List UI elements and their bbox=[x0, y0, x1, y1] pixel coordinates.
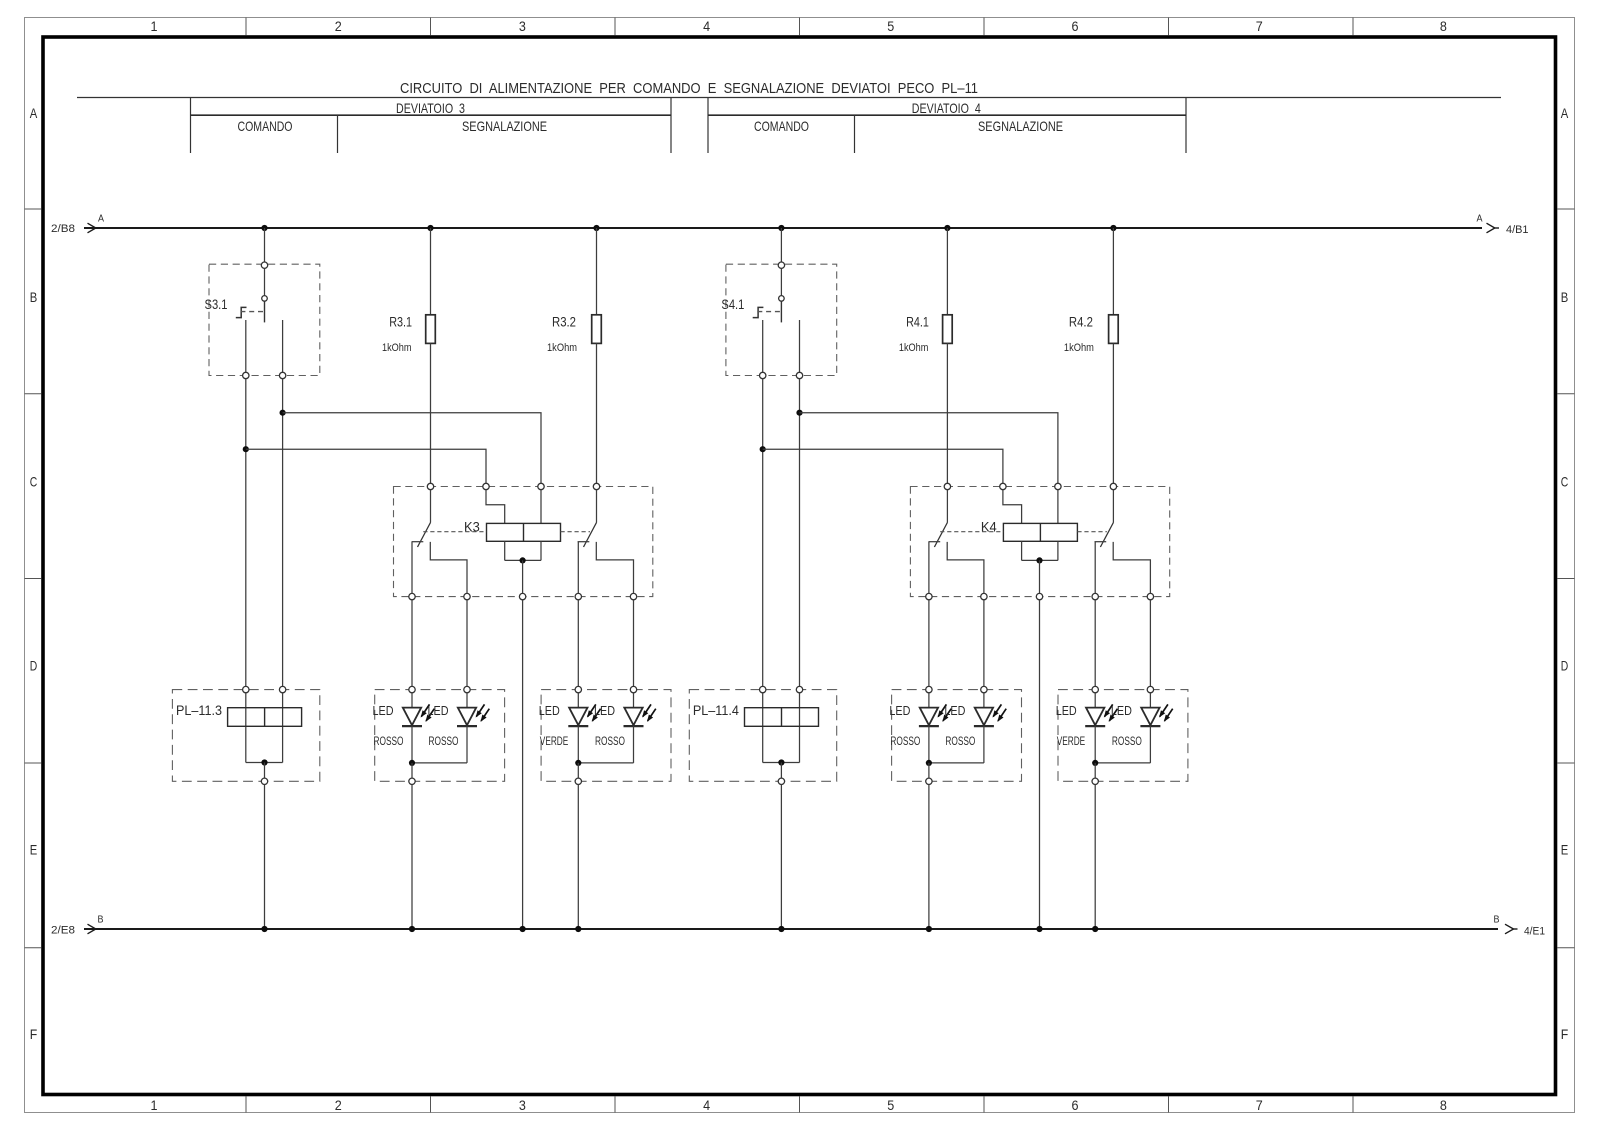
svg-text:LED: LED bbox=[1056, 703, 1077, 718]
svg-text:5: 5 bbox=[887, 18, 894, 34]
wire: K4 contact to LED group 1 bbox=[928, 600, 930, 687]
wire: K4 contact to LED group 1 bbox=[983, 600, 985, 687]
wire: pole1 to K4 coil terminal bbox=[763, 449, 1003, 483]
svg-text:A: A bbox=[98, 214, 104, 225]
value 1kOhm (R3.1) bbox=[382, 342, 412, 354]
header group DEVIATOIO 3 bbox=[191, 98, 672, 154]
LED VERDE bbox=[1085, 686, 1117, 763]
wire: K4 contact to LED group 2 bbox=[1149, 600, 1151, 687]
svg-text:DEVIATOIO 3: DEVIATOIO 3 bbox=[396, 100, 465, 116]
svg-text:CIRCUITO DI ALIMENTAZIONE P: CIRCUITO DI ALIMENTAZIONE PER COMANDO E … bbox=[400, 80, 978, 97]
svg-text:F: F bbox=[1561, 1026, 1569, 1042]
svg-text:LED: LED bbox=[539, 703, 560, 718]
svg-text:4: 4 bbox=[703, 1097, 710, 1113]
value 1kOhm (R4.1) bbox=[899, 342, 929, 354]
label ROSSO bbox=[374, 734, 404, 748]
label ROSSO bbox=[595, 734, 625, 748]
svg-text:2/E8: 2/E8 bbox=[51, 925, 75, 937]
resistor R3.1 bbox=[426, 315, 436, 344]
LED ROSSO bbox=[974, 686, 1006, 763]
LED indicator group (K3 segnalazione) bbox=[541, 690, 671, 782]
LED indicator group (K4 comando) bbox=[892, 690, 1022, 782]
junction: bus A / S4.1 bbox=[778, 225, 784, 231]
net label 4/B1 bbox=[1506, 224, 1529, 236]
wire: S4.1 pole2 down to PL coil bbox=[799, 379, 801, 687]
svg-text:LED: LED bbox=[373, 703, 394, 718]
label LED bbox=[539, 703, 560, 718]
junction: LED group (K3 segnalazione) bbox=[575, 760, 581, 766]
svg-text:1: 1 bbox=[151, 18, 158, 34]
svg-text:R4.2: R4.2 bbox=[1069, 314, 1093, 330]
label LED bbox=[1056, 703, 1077, 718]
svg-text:4: 4 bbox=[703, 18, 710, 34]
svg-text:R4.1: R4.1 bbox=[906, 314, 929, 330]
wire: R4.2 to K4 contact bbox=[1112, 343, 1114, 483]
svg-text:F: F bbox=[30, 1026, 38, 1042]
junction: K4 return / bus B bbox=[1036, 926, 1042, 932]
point machine coil PL-11.3 bbox=[172, 686, 319, 784]
LED indicator group (K4 segnalazione) bbox=[1058, 690, 1188, 782]
junction: LED return / bus B (K3 comando) bbox=[409, 926, 415, 932]
wire: bus B (2/E8 to 4/E1) bbox=[84, 924, 1518, 934]
svg-text:K3: K3 bbox=[464, 519, 480, 535]
terminal: LED group return (K3 comando) bbox=[409, 763, 415, 785]
wire: pole2 to K3 coil terminal bbox=[283, 413, 541, 484]
svg-text:2/B8: 2/B8 bbox=[51, 223, 75, 235]
node B right bbox=[1494, 915, 1500, 926]
svg-text:ROSSO: ROSSO bbox=[374, 734, 404, 748]
svg-text:2: 2 bbox=[335, 18, 342, 34]
svg-text:ROSSO: ROSSO bbox=[945, 734, 975, 748]
svg-text:PL–11.3: PL–11.3 bbox=[176, 702, 222, 718]
svg-text:E: E bbox=[30, 842, 38, 858]
junction: pole2 / relay wire bbox=[796, 410, 802, 416]
terminal: LED group return (K4 segnalazione) bbox=[1092, 763, 1098, 785]
value 1kOhm (R4.2) bbox=[1064, 342, 1094, 354]
junction: bus A / R4.2 bbox=[1110, 225, 1116, 231]
wire: PL-11.3 return to bus B bbox=[264, 785, 266, 930]
svg-text:K4: K4 bbox=[981, 519, 997, 535]
svg-text:1kOhm: 1kOhm bbox=[547, 342, 577, 354]
wire: R3.2 to K3 contact bbox=[596, 343, 598, 483]
wire: bus A (2/B8 to 4/B1) bbox=[84, 223, 1499, 233]
junction: LED group (K3 comando) bbox=[409, 760, 415, 766]
wire: K3 coil return to bus B bbox=[522, 600, 524, 929]
title: CIRCUITO DI ALIMENTAZIONE PER COMANDO E SEGNALAZIONE DEVIATOI PECO PL-11 bbox=[400, 80, 978, 97]
wire: K4 coil return to bus B bbox=[1039, 600, 1041, 929]
LED ROSSO bbox=[919, 686, 951, 763]
svg-text:S4.1: S4.1 bbox=[721, 296, 744, 312]
label ROSSO bbox=[945, 734, 975, 748]
svg-text:B: B bbox=[30, 289, 38, 305]
label K3 bbox=[464, 519, 480, 535]
net label 4/E1 bbox=[1524, 926, 1545, 938]
svg-text:ROSSO: ROSSO bbox=[595, 734, 625, 748]
switch S4.1 (DPDT command switch) bbox=[726, 262, 837, 379]
resistor R3.2 bbox=[592, 315, 602, 344]
svg-text:4/B1: 4/B1 bbox=[1506, 224, 1529, 236]
label LED bbox=[944, 703, 965, 718]
svg-text:B: B bbox=[98, 915, 104, 926]
svg-text:8: 8 bbox=[1440, 1097, 1447, 1113]
wire: R3.1 to K3 contact bbox=[430, 343, 432, 483]
point machine coil PL-11.4 bbox=[689, 686, 836, 784]
svg-text:B: B bbox=[1561, 289, 1569, 305]
wire: bus A to R4.1 bbox=[946, 228, 948, 315]
resistor R4.1 bbox=[943, 315, 953, 344]
wire: LED cathodes join (K3 comando) bbox=[412, 762, 467, 764]
svg-text:2: 2 bbox=[335, 1097, 342, 1113]
label PL-11.3 bbox=[176, 702, 222, 718]
junction: LED return / bus B (K4 segnalazione) bbox=[1092, 926, 1098, 932]
wire: LED group return to bus B (K4 segnalazione) bbox=[1094, 785, 1096, 930]
header group DEVIATOIO 4 bbox=[708, 98, 1186, 154]
svg-text:6: 6 bbox=[1072, 1097, 1079, 1113]
label S3.1 bbox=[205, 296, 228, 312]
svg-text:B: B bbox=[1494, 915, 1500, 926]
label R3.1 bbox=[389, 314, 412, 330]
node A left bbox=[98, 214, 104, 225]
svg-text:R3.2: R3.2 bbox=[552, 314, 576, 330]
label R4.1 bbox=[906, 314, 929, 330]
svg-text:ROSSO: ROSSO bbox=[890, 734, 920, 748]
label LED bbox=[428, 703, 449, 718]
junction: pole2 / relay wire bbox=[280, 410, 286, 416]
label VERDE bbox=[540, 734, 569, 748]
node A right bbox=[1477, 214, 1483, 225]
svg-text:C: C bbox=[1561, 473, 1569, 489]
resistor R4.2 bbox=[1109, 315, 1119, 344]
svg-text:A: A bbox=[30, 105, 38, 121]
label S4.1 bbox=[721, 296, 744, 312]
svg-text:S3.1: S3.1 bbox=[205, 296, 228, 312]
wire: LED group return to bus B (K3 comando) bbox=[411, 785, 413, 930]
svg-text:SEGNALAZIONE: SEGNALAZIONE bbox=[978, 118, 1063, 134]
svg-text:VERDE: VERDE bbox=[540, 734, 569, 748]
junction: bus A / R3.1 bbox=[427, 225, 433, 231]
svg-text:7: 7 bbox=[1256, 1097, 1263, 1113]
svg-text:VERDE: VERDE bbox=[1057, 734, 1086, 748]
label VERDE bbox=[1057, 734, 1086, 748]
wire: R4.1 to K4 contact bbox=[946, 343, 948, 483]
wire: LED group return to bus B (K3 segnalazione) bbox=[577, 785, 579, 930]
svg-text:D: D bbox=[1561, 658, 1569, 674]
wire: bus A to R3.1 bbox=[430, 228, 432, 315]
wire: K3 contact to LED group 2 bbox=[633, 600, 635, 687]
svg-text:LED: LED bbox=[1111, 703, 1132, 718]
label ROSSO bbox=[429, 734, 459, 748]
wire: pole1 to K3 coil terminal bbox=[246, 449, 486, 483]
svg-text:LED: LED bbox=[944, 703, 965, 718]
svg-text:LED: LED bbox=[594, 703, 615, 718]
label R4.2 bbox=[1069, 314, 1093, 330]
svg-text:1kOhm: 1kOhm bbox=[899, 342, 929, 354]
svg-text:PL–11.4: PL–11.4 bbox=[693, 702, 739, 718]
svg-text:1kOhm: 1kOhm bbox=[382, 342, 412, 354]
svg-text:A: A bbox=[1561, 105, 1569, 121]
LED ROSSO bbox=[457, 686, 489, 763]
wire: S4.1 pole1 down to PL coil bbox=[762, 379, 764, 687]
svg-text:8: 8 bbox=[1440, 18, 1447, 34]
net label 2/B8 bbox=[51, 223, 75, 235]
wire: bus A to R4.2 bbox=[1112, 228, 1114, 315]
junction: bus A / R3.2 bbox=[593, 225, 599, 231]
junction: bus A / S3.1 bbox=[261, 225, 267, 231]
junction: LED group (K4 segnalazione) bbox=[1092, 760, 1098, 766]
junction: pole1 / relay wire bbox=[760, 446, 766, 452]
label PL-11.4 bbox=[693, 702, 739, 718]
junction: bus A / R4.1 bbox=[944, 225, 950, 231]
wire: PL-11.4 return to bus B bbox=[780, 785, 782, 930]
svg-text:3: 3 bbox=[519, 1097, 526, 1113]
svg-text:ROSSO: ROSSO bbox=[429, 734, 459, 748]
relay K4 (coil and changeover contacts) bbox=[910, 483, 1169, 600]
wire: K3 contact to LED group 1 bbox=[411, 600, 413, 687]
node B left bbox=[98, 915, 104, 926]
svg-text:E: E bbox=[1561, 842, 1569, 858]
switch S3.1 (DPDT command switch) bbox=[209, 262, 320, 379]
wire: S3.1 pole1 down to PL coil bbox=[245, 379, 247, 687]
svg-text:A: A bbox=[1477, 214, 1483, 225]
value 1kOhm (R3.2) bbox=[547, 342, 577, 354]
label LED bbox=[889, 703, 910, 718]
wire: pole2 to K4 coil terminal bbox=[800, 413, 1058, 484]
svg-text:7: 7 bbox=[1256, 18, 1263, 34]
svg-text:DEVIATOIO 4: DEVIATOIO 4 bbox=[912, 100, 981, 116]
wire: LED cathodes join (K4 comando) bbox=[929, 762, 984, 764]
LED ROSSO bbox=[1140, 686, 1172, 763]
wire: LED cathodes join (K3 segnalazione) bbox=[578, 762, 633, 764]
svg-text:4/E1: 4/E1 bbox=[1524, 926, 1545, 938]
svg-text:LED: LED bbox=[428, 703, 449, 718]
wire: LED cathodes join (K4 segnalazione) bbox=[1095, 762, 1150, 764]
svg-text:1kOhm: 1kOhm bbox=[1064, 342, 1094, 354]
relay K3 (coil and changeover contacts) bbox=[394, 483, 653, 600]
svg-text:ROSSO: ROSSO bbox=[1112, 734, 1142, 748]
label R3.2 bbox=[552, 314, 576, 330]
svg-text:COMANDO: COMANDO bbox=[238, 118, 293, 134]
terminal: LED group return (K3 segnalazione) bbox=[575, 763, 581, 785]
label K4 bbox=[981, 519, 997, 535]
svg-text:C: C bbox=[30, 473, 38, 489]
svg-text:6: 6 bbox=[1072, 18, 1079, 34]
junction: LED return / bus B (K3 segnalazione) bbox=[575, 926, 581, 932]
wire: K3 contact to LED group 1 bbox=[466, 600, 468, 687]
junction: PL-11.3 / bus B bbox=[261, 926, 267, 932]
label ROSSO bbox=[1112, 734, 1142, 748]
svg-text:D: D bbox=[30, 658, 38, 674]
svg-text:SEGNALAZIONE: SEGNALAZIONE bbox=[462, 118, 547, 134]
svg-text:LED: LED bbox=[889, 703, 910, 718]
svg-text:R3.1: R3.1 bbox=[389, 314, 412, 330]
junction: K3 return / bus B bbox=[520, 926, 526, 932]
svg-text:3: 3 bbox=[519, 18, 526, 34]
wire: K3 contact to LED group 2 bbox=[577, 600, 579, 687]
junction: LED return / bus B (K4 comando) bbox=[926, 926, 932, 932]
LED indicator group (K3 comando) bbox=[375, 690, 505, 782]
terminal: LED group return (K4 comando) bbox=[926, 763, 932, 785]
wire: K4 contact to LED group 2 bbox=[1094, 600, 1096, 687]
label LED bbox=[373, 703, 394, 718]
wire: S3.1 pole2 down to PL coil bbox=[282, 379, 284, 687]
svg-text:COMANDO: COMANDO bbox=[754, 118, 809, 134]
wire: LED group return to bus B (K4 comando) bbox=[928, 785, 930, 930]
junction: LED group (K4 comando) bbox=[926, 760, 932, 766]
LED ROSSO bbox=[624, 686, 656, 763]
LED VERDE bbox=[568, 686, 600, 763]
junction: pole1 / relay wire bbox=[243, 446, 249, 452]
header rule line bbox=[77, 97, 1501, 99]
LED ROSSO bbox=[402, 686, 434, 763]
wire: bus A to R3.2 bbox=[596, 228, 598, 315]
svg-text:1: 1 bbox=[151, 1097, 158, 1113]
wire: bus A to S4.1 bbox=[780, 228, 782, 262]
label LED bbox=[594, 703, 615, 718]
wire: bus A to S3.1 bbox=[264, 228, 266, 262]
net label 2/E8 bbox=[51, 925, 75, 937]
junction: PL-11.4 / bus B bbox=[778, 926, 784, 932]
label LED bbox=[1111, 703, 1132, 718]
svg-text:5: 5 bbox=[887, 1097, 894, 1113]
label ROSSO bbox=[890, 734, 920, 748]
